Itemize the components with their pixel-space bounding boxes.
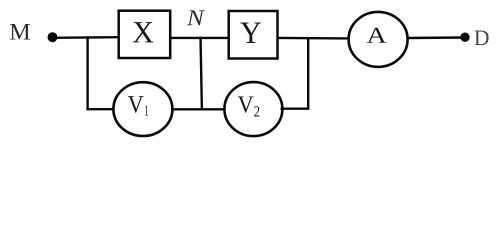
wire M to X	[53, 36, 120, 39]
node M label	[10, 24, 30, 40]
wire X to Y	[170, 37, 229, 39]
wire bottom middle segment	[171, 108, 226, 110]
voltmeter V1	[113, 82, 172, 136]
box X	[119, 11, 171, 58]
terminal dot M	[48, 32, 58, 42]
wire A to D	[407, 36, 465, 39]
wire node N branch vertical	[201, 37, 202, 110]
ammeter A	[349, 12, 408, 67]
node N label	[187, 10, 205, 25]
box Y	[229, 11, 278, 59]
wire left branch vertical	[86, 36, 88, 110]
voltmeter V2	[224, 82, 282, 136]
node D label	[474, 31, 488, 46]
wire bottom left segment	[86, 108, 115, 110]
wire bottom right segment	[281, 107, 310, 109]
terminal dot D	[460, 33, 469, 42]
wire Y to A	[278, 37, 350, 40]
wire right branch vertical	[307, 38, 309, 110]
